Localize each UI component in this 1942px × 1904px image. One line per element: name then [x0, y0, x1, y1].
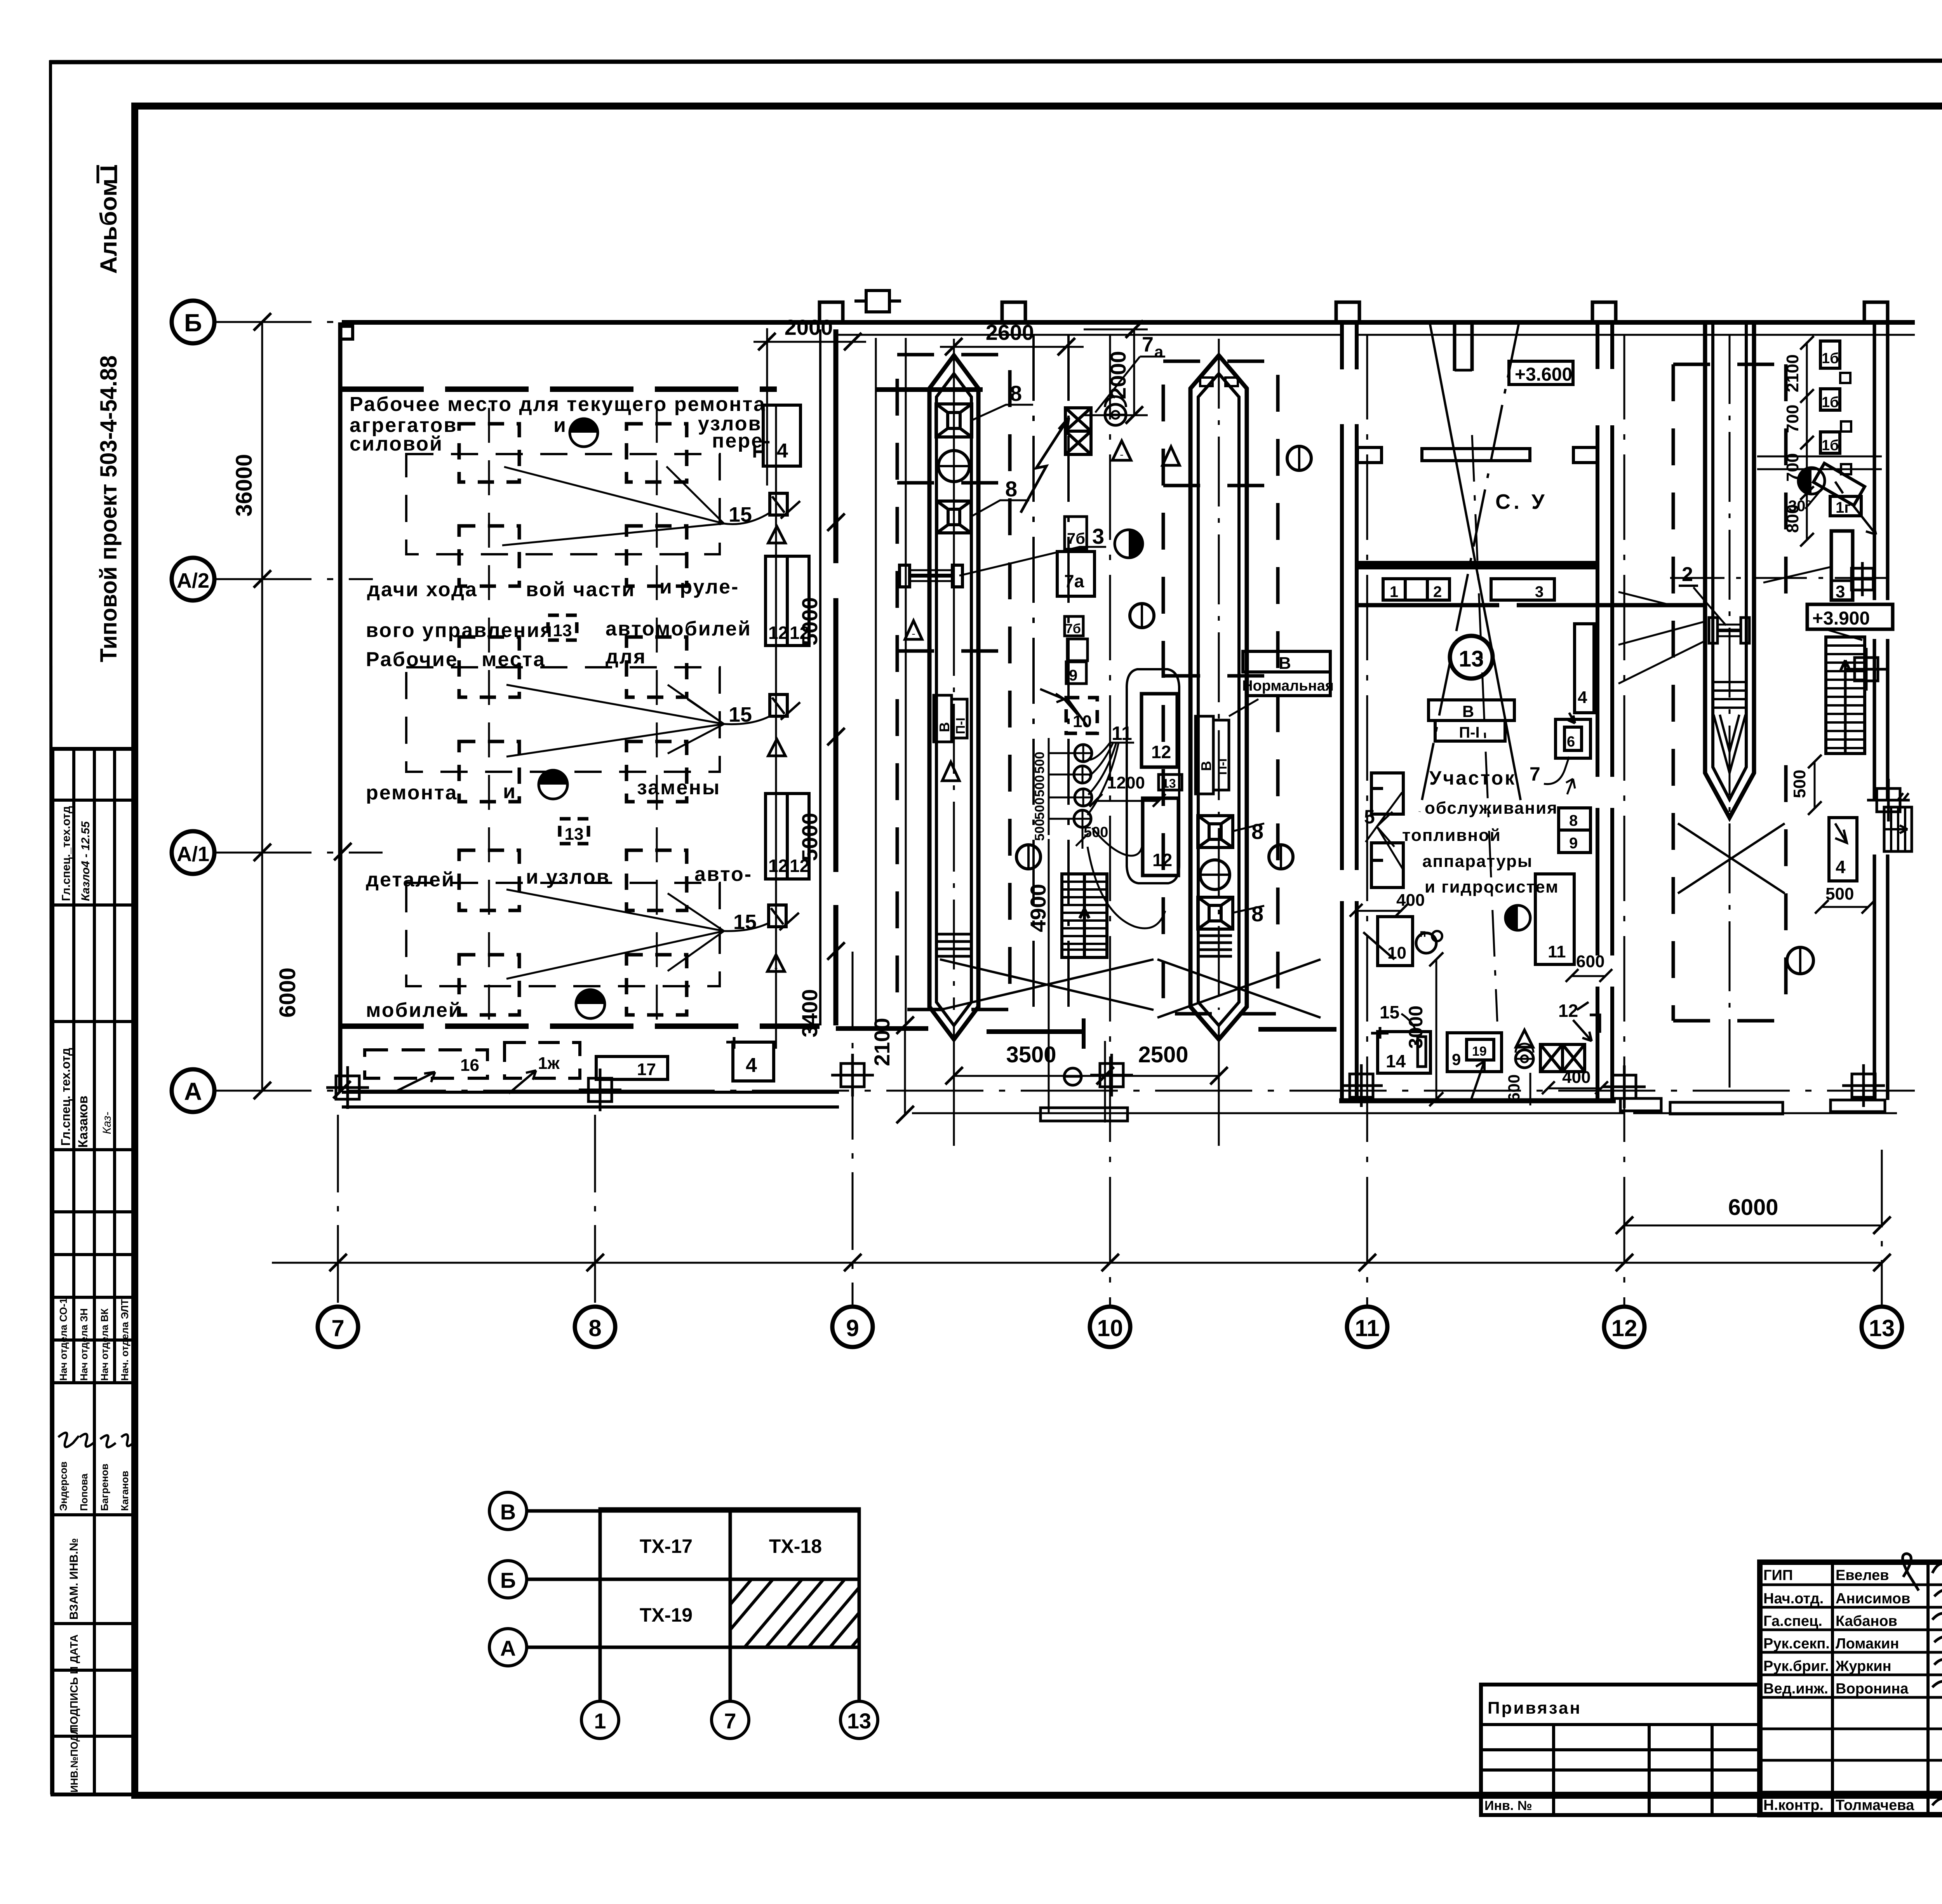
- pit 1 callout 8 upper: [972, 405, 1033, 420]
- half dark circle room13: [1505, 905, 1530, 930]
- bottom dim ticks: [329, 1217, 1891, 1271]
- fuel benches left pair: [1371, 773, 1403, 814]
- small side stair: [1884, 807, 1912, 851]
- svg-text:2000: 2000: [785, 315, 833, 339]
- svg-text:2: 2: [1433, 583, 1442, 600]
- pit 3 inner walls: [1713, 322, 1746, 799]
- svg-text:36000: 36000: [231, 454, 257, 517]
- svg-text:Кабанов: Кабанов: [1836, 1613, 1897, 1629]
- svg-text:12: 12: [768, 856, 788, 876]
- svg-text:4: 4: [1578, 688, 1587, 707]
- crossed box lower room: [1540, 1044, 1585, 1072]
- axis line А/1: [214, 852, 383, 854]
- svg-text:3400: 3400: [797, 989, 822, 1037]
- rotated table texts: [57, 806, 131, 1793]
- key plan axis circle В: [489, 1492, 527, 1530]
- bottom dimension line: [272, 1262, 1882, 1264]
- svg-text:11: 11: [1548, 942, 1566, 961]
- callout 15 group 3: [506, 889, 799, 979]
- witness line for 2000: [766, 328, 768, 486]
- rounded enclosure of benches: [1127, 669, 1179, 883]
- pit 2 circle device: [1200, 860, 1230, 889]
- svg-text:1б: 1б: [1822, 437, 1839, 454]
- dash-dot horizontal through pit3 beam: [1670, 577, 1895, 579]
- svg-text:Гл.спец. тех.отд: Гл.спец. тех.отд: [59, 1048, 73, 1146]
- pit 3 hatch steps: [1714, 682, 1745, 708]
- svg-text:Ломакин: Ломакин: [1836, 1636, 1899, 1652]
- marker В П-I room13: [1429, 700, 1514, 741]
- benches 8 9 stack: [1559, 808, 1590, 853]
- svg-text:11: 11: [1355, 1315, 1379, 1341]
- top dim 2600: [940, 346, 1084, 348]
- svg-text:автомобилей: автомобилей: [606, 618, 752, 640]
- long thin cross lines over pit3 area: [1618, 567, 1830, 645]
- pit 2 callout 8 lower: [1233, 906, 1264, 913]
- sheet top edge: [50, 60, 1942, 62]
- bench 10 lower: [1378, 917, 1413, 966]
- pit 1 circle device: [938, 451, 969, 482]
- warning triangle and valve lower room: [1516, 1030, 1533, 1047]
- car outline dashed rectangles: [406, 454, 720, 986]
- svg-text:10: 10: [1073, 712, 1092, 731]
- key plan axis circle 1: [581, 1701, 619, 1739]
- svg-text:Б: Б: [500, 1568, 516, 1592]
- left dimension line vertical: [261, 322, 263, 1091]
- svg-text:1г: 1г: [1836, 499, 1851, 516]
- svg-text:9: 9: [1069, 667, 1077, 684]
- svg-text:и узлов: и узлов: [526, 866, 610, 888]
- svg-text:12: 12: [768, 623, 788, 643]
- svg-text:деталей: деталей: [366, 868, 455, 891]
- svg-text:10: 10: [1387, 943, 1406, 962]
- svg-text:А/1: А/1: [177, 842, 209, 866]
- PLANWALLS: [326, 302, 1915, 1114]
- svg-text:места: места: [482, 648, 546, 671]
- svg-text:12: 12: [1151, 742, 1171, 762]
- svg-text:ВЗАМ. ИНВ.№: ВЗАМ. ИНВ.№: [68, 1538, 80, 1620]
- hatched cell: [730, 1579, 859, 1647]
- svg-text:П-I: П-I: [1215, 758, 1229, 775]
- key plan axis circle 7: [712, 1701, 749, 1739]
- svg-text:7б: 7б: [1065, 621, 1081, 636]
- signature rows: [1760, 1584, 1942, 1586]
- svg-text:ТХ-19: ТХ-19: [640, 1604, 693, 1626]
- leader curves from gauges to benches: [1088, 828, 1165, 928]
- signature squiggles in strip: [58, 1433, 134, 1447]
- svg-text:13: 13: [1459, 646, 1484, 672]
- jack beam in pit3: [1709, 618, 1749, 643]
- svg-text:2100: 2100: [1783, 354, 1802, 392]
- svg-text:1б: 1б: [1822, 394, 1839, 411]
- svg-text:600: 600: [1505, 1074, 1523, 1102]
- svg-text:Гл.спец._тех.отд: Гл.спец._тех.отд: [60, 806, 73, 901]
- benches 12 12 pair 2: [766, 794, 809, 879]
- svg-text:Нач отдела СО-1: Нач отдела СО-1: [57, 1298, 69, 1381]
- svg-text:6: 6: [1567, 734, 1575, 750]
- pit 3 centre axis: [1729, 334, 1731, 1088]
- axis circle А/1: [172, 831, 214, 874]
- cross bracing below pit1: [940, 959, 1154, 1010]
- svg-text:12: 12: [1558, 1001, 1578, 1021]
- sheet left edge: [50, 60, 52, 1794]
- svg-text:600: 600: [1576, 952, 1604, 971]
- svg-text:11: 11: [1112, 722, 1132, 744]
- svg-text:4: 4: [746, 1054, 757, 1077]
- svg-text:2600: 2600: [986, 320, 1034, 345]
- partition wall between hall and mid zone: [819, 329, 821, 1025]
- su bottom wall: [1357, 561, 1597, 569]
- storage 16 dashed box: [365, 1050, 487, 1078]
- svg-text:500: 500: [1032, 819, 1047, 841]
- svg-text:В: В: [1462, 702, 1474, 721]
- axis line Б: [214, 321, 1915, 323]
- top landing double line right section: [1757, 456, 1882, 469]
- svg-text:19: 19: [1472, 1044, 1487, 1059]
- svg-text:Рабочие: Рабочие: [366, 648, 458, 671]
- bench 9 with inner: [1447, 1033, 1502, 1072]
- elevation label +3.900: [1807, 604, 1893, 629]
- pit 2 warning triangle: [1162, 447, 1180, 465]
- su wall stubs inward: [1357, 447, 1382, 463]
- right rooms east wall: [1596, 322, 1599, 1101]
- equip column 7а big: [1057, 552, 1095, 596]
- dashed box 10: [1066, 698, 1097, 733]
- svg-text:2500: 2500: [1138, 1042, 1188, 1067]
- svg-text:1: 1: [594, 1709, 606, 1733]
- svg-text:Инв. №: Инв. №: [1484, 1798, 1532, 1813]
- svg-text:15: 15: [729, 703, 752, 726]
- bench 4 room13: [1575, 624, 1594, 713]
- svg-text:14: 14: [1386, 1051, 1406, 1071]
- pit 1 hoist device top: [936, 404, 972, 437]
- pit 2 inner walls: [1198, 374, 1239, 1025]
- su top wall stub: [1455, 322, 1472, 371]
- key plan axis circle А: [489, 1629, 527, 1666]
- svg-text:+3.600: +3.600: [1515, 364, 1572, 385]
- right section east wall: [1874, 322, 1888, 1100]
- svg-text:Типовой проект 503-4-54.88: Типовой проект 503-4-54.88: [96, 355, 122, 662]
- svg-text:2: 2: [1682, 563, 1693, 586]
- svg-text:3: 3: [1535, 583, 1544, 600]
- svg-text:замены: замены: [637, 776, 720, 799]
- RIGHTROOMS: [1350, 320, 1612, 1106]
- svg-text:8: 8: [588, 1315, 601, 1341]
- svg-text:Воронина: Воронина: [1836, 1681, 1909, 1697]
- svg-text:В: В: [936, 722, 952, 732]
- svg-text:13: 13: [565, 825, 584, 844]
- svg-text:А: А: [184, 1077, 202, 1105]
- svg-text:8: 8: [1010, 381, 1022, 406]
- TITLEBLOCK: [1481, 1533, 1942, 1859]
- svg-text:1ж: 1ж: [538, 1054, 560, 1073]
- svg-text:7: 7: [1142, 333, 1154, 356]
- storage 1ж dashed box: [505, 1043, 580, 1078]
- svg-text:Нач отдела ВК: Нач отдела ВК: [99, 1309, 110, 1381]
- pit 3 nested V ramp end: [1714, 715, 1745, 773]
- svg-text:4900: 4900: [1026, 884, 1050, 932]
- PITS: [876, 322, 1786, 1111]
- svg-text:6000: 6000: [1728, 1195, 1778, 1220]
- benches 12 12 pair 1: [766, 556, 809, 646]
- svg-text:дачи хода: дачи хода: [367, 578, 478, 601]
- monitoring circle mid upper: [1130, 604, 1154, 628]
- svg-text:П-I: П-I: [1459, 724, 1479, 741]
- AXES: [172, 301, 1915, 1347]
- pit 1 dashed work zone: [897, 355, 1010, 1009]
- equip column 7б: [1065, 517, 1087, 549]
- monitoring circle right sect: [1787, 947, 1813, 974]
- equip column 7б small2: [1065, 616, 1083, 636]
- svg-text:Эндерсов: Эндерсов: [57, 1462, 69, 1511]
- svg-text:А/2: А/2: [177, 569, 209, 592]
- axis circle Б: [172, 301, 214, 343]
- svg-text:авто-: авто-: [694, 863, 752, 886]
- marker 3 box: [1831, 531, 1853, 600]
- equip column 9 box: [1066, 662, 1086, 684]
- svg-text:Багренов: Багренов: [99, 1464, 110, 1511]
- svg-text:аппаратуры: аппаратуры: [1422, 852, 1533, 871]
- svg-text:и руле-: и руле-: [660, 576, 739, 598]
- svg-text:1: 1: [1390, 583, 1398, 600]
- pit 1 marker label В П-I: [934, 695, 967, 742]
- tilted unit 30deg: [1813, 463, 1865, 505]
- pit 2 top device boxes: [1200, 378, 1213, 386]
- svg-text:7: 7: [1530, 763, 1540, 785]
- svg-text:С. У: С. У: [1495, 490, 1548, 513]
- svg-text:Б: Б: [184, 309, 202, 337]
- svg-text:Анисимов: Анисимов: [1836, 1591, 1910, 1607]
- bench 4 box bottom: [733, 1042, 774, 1081]
- filter boxes 1б: [1820, 341, 1840, 368]
- svg-text:7: 7: [724, 1709, 736, 1733]
- pit 2 callout 8 upper: [1233, 823, 1264, 831]
- locker 3 row: [1491, 579, 1554, 600]
- svg-text:Га.спец.: Га.спец.: [1763, 1613, 1822, 1629]
- workplace dashed squares: [459, 424, 687, 1015]
- axis circle 8: [575, 1307, 615, 1347]
- right section bottom wall piece: [1831, 1100, 1885, 1112]
- bench 4 right sect: [1829, 818, 1857, 881]
- svg-text:+3.900: +3.900: [1812, 608, 1870, 629]
- axis verticals below building: [338, 334, 1882, 1305]
- svg-text:Нач отдела ЗН: Нач отдела ЗН: [78, 1308, 90, 1381]
- bottom partition of repair hall (dashed thick): [340, 1023, 820, 1029]
- wall between mid zone and right rooms: [1340, 322, 1344, 1101]
- svg-text:500: 500: [1790, 770, 1809, 798]
- svg-text:6000: 6000: [275, 968, 300, 1018]
- column tabs on top wall: [820, 302, 1888, 322]
- pit 1 bottom hatch steps: [937, 934, 971, 956]
- elevation label +3.600: [1509, 361, 1573, 385]
- pit 2 bottom hatch steps: [1198, 936, 1232, 956]
- key plan axis circle Б: [489, 1561, 527, 1598]
- svg-text:7: 7: [331, 1315, 344, 1341]
- gauge circles stack: [1074, 745, 1092, 827]
- top small tank symbol above frame: [854, 291, 901, 312]
- svg-text:5000: 5000: [797, 597, 822, 646]
- warning triangle right of fuel boxes: [1112, 441, 1131, 460]
- KEYPLAN: [489, 1492, 878, 1739]
- lightning arrow to fuel point: [1021, 418, 1069, 513]
- svg-text:3: 3: [1092, 524, 1104, 548]
- svg-text:и: и: [553, 414, 566, 437]
- bench 17 box: [596, 1056, 668, 1079]
- svg-text:Вед.инж.: Вед.инж.: [1763, 1681, 1828, 1697]
- double circle symbol: [1416, 933, 1436, 953]
- svg-text:мобилей: мобилей: [366, 999, 462, 1022]
- svg-text:Нач. отдела ЭЛТ: Нач. отдела ЭЛТ: [119, 1299, 131, 1381]
- ref box 13 small: [1159, 774, 1182, 790]
- mid stairs: [1062, 874, 1107, 957]
- plinth edge line below bottom wall: [912, 1112, 1897, 1114]
- svg-text:и: и: [503, 780, 515, 803]
- equipment rail line: [775, 406, 777, 1049]
- pit 2 marker label В П-I: [1195, 716, 1229, 794]
- gauge dim lines 500: [1049, 752, 1083, 754]
- bench 11 tall: [1535, 874, 1574, 964]
- svg-text:500: 500: [1032, 752, 1047, 774]
- svg-text:Рук.бриг.: Рук.бриг.: [1763, 1658, 1829, 1674]
- svg-text:9: 9: [846, 1315, 859, 1341]
- lockers 1 2 row: [1383, 579, 1450, 600]
- crossed fuel boxes: [1065, 408, 1091, 454]
- axis circle 9: [832, 1307, 873, 1347]
- lower room bottom wall: [1339, 1098, 1616, 1103]
- svg-text:а: а: [1154, 343, 1164, 361]
- svg-text:Казаков: Казаков: [76, 1096, 90, 1148]
- callout 15 group 2: [506, 685, 800, 757]
- half dark circle symbol 2: [539, 770, 567, 799]
- svg-text:4: 4: [777, 440, 788, 462]
- axis circle А/2: [172, 558, 214, 600]
- svg-text:7а: 7а: [1064, 571, 1084, 591]
- svg-text:3000: 3000: [1405, 1006, 1427, 1049]
- svg-text:и гидросистем: и гидросистем: [1425, 877, 1559, 896]
- svg-text:Журкин: Журкин: [1835, 1658, 1892, 1674]
- top outer wall along axis Б: [342, 320, 1915, 325]
- svg-text:П-I: П-I: [954, 717, 968, 734]
- svg-text:силовой: силовой: [350, 433, 443, 455]
- bench 12 box upper: [1142, 694, 1177, 767]
- pit 2 hoist device 2: [1198, 897, 1233, 929]
- signatures squiggles: [1903, 1554, 1942, 1805]
- top dim 2000: [753, 341, 866, 343]
- pit 2 hoist device 1: [1198, 816, 1233, 848]
- lightning arrow to 10: [1040, 689, 1078, 715]
- svg-text:ГИП: ГИП: [1763, 1567, 1793, 1584]
- signature table texts: [1763, 1567, 1914, 1813]
- pit 1 callout 8 lower: [971, 500, 1029, 517]
- svg-text:ТХ-17: ТХ-17: [640, 1535, 693, 1557]
- apron wall rect below mid zone: [1041, 1108, 1128, 1121]
- svg-text:ПОДПИСЬ И ДАТА: ПОДПИСЬ И ДАТА: [68, 1634, 80, 1732]
- svg-text:Рук.секп.: Рук.секп.: [1763, 1636, 1830, 1652]
- cross bracing below pit3: [1678, 823, 1785, 893]
- LEFTSTRIP: [52, 165, 135, 1794]
- mid zone bottom boundary: [836, 1029, 1336, 1032]
- dim ticks on partition: [827, 513, 845, 960]
- half dark circle symbol 3: [576, 990, 605, 1018]
- svg-text:1б: 1б: [1822, 350, 1839, 367]
- svg-text:5000: 5000: [797, 813, 822, 861]
- svg-text:500: 500: [1032, 775, 1047, 797]
- svg-text:2100: 2100: [870, 1018, 894, 1066]
- axis circle 12: [1604, 1307, 1644, 1347]
- monitoring circle right of pit2 top: [1287, 446, 1311, 470]
- svg-text:Нач.отд.: Нач.отд.: [1763, 1591, 1824, 1607]
- label 1г box: [1830, 496, 1861, 516]
- axis circle 10: [1090, 1307, 1130, 1347]
- svg-text:Евелев: Евелев: [1836, 1567, 1889, 1584]
- bench 12 box lower: [1143, 798, 1178, 875]
- svg-text:13: 13: [553, 621, 572, 640]
- equip column blank box: [1067, 639, 1088, 661]
- svg-text:Толмачева: Толмачева: [1836, 1797, 1914, 1813]
- svg-text:700: 700: [1783, 405, 1802, 433]
- certification table grid: [52, 749, 135, 1794]
- column footing marks with cross arms: [326, 648, 1910, 1111]
- signature columns: [1831, 1562, 1834, 1815]
- LEFTHALL: [350, 393, 845, 1093]
- svg-text:ремонта: ремонта: [366, 781, 458, 804]
- svg-text:Попова: Попова: [78, 1473, 90, 1511]
- svg-text:13: 13: [1162, 776, 1176, 790]
- svg-text:Участок: Участок: [1429, 767, 1516, 789]
- top partition of repair hall (dashed thick): [340, 386, 777, 392]
- valve circle symbol: [1105, 404, 1126, 425]
- svg-text:9: 9: [1452, 1050, 1461, 1069]
- pit 3 outer walls: [1705, 322, 1754, 818]
- 13 ref box 2: [560, 819, 588, 844]
- pit 1 outer walls with pointed ends: [929, 355, 978, 1039]
- pit 3 dashed work zone: [1673, 364, 1786, 1021]
- overbar and underbar of roman I: [97, 165, 99, 183]
- pit 2 centre axis: [1218, 339, 1220, 1010]
- axis line А: [214, 1090, 1915, 1092]
- svg-text:16: 16: [460, 1056, 479, 1075]
- monitoring circle right low: [1269, 845, 1293, 869]
- small valve circle bottom: [1064, 1068, 1081, 1085]
- workplace dashed squares column centre axes: [489, 408, 657, 1033]
- svg-text:400: 400: [1396, 891, 1425, 910]
- axis circle 13: [1862, 1307, 1902, 1347]
- su toilet partition: [1422, 449, 1530, 461]
- axis line А/2: [214, 578, 373, 580]
- svg-text:15: 15: [729, 503, 752, 526]
- leader fan from 5: [1366, 792, 1403, 869]
- svg-text:12: 12: [1611, 1315, 1637, 1341]
- pit 2 dashed work zone: [1163, 361, 1278, 1014]
- pit 1 warning triangle low: [942, 762, 959, 781]
- svg-text:13: 13: [847, 1709, 871, 1733]
- svg-text:8: 8: [1251, 902, 1263, 926]
- svg-text:Каз-: Каз-: [101, 1112, 113, 1134]
- svg-text:17: 17: [637, 1060, 656, 1079]
- monitoring circle left low: [1016, 845, 1041, 869]
- svg-text:7б: 7б: [1067, 530, 1085, 547]
- half dark circle symbol 1: [570, 419, 598, 447]
- vertical dim 2000 right: [1133, 329, 1135, 415]
- lane dashed lines between pits: [1032, 335, 1035, 1010]
- svg-text:12: 12: [1152, 850, 1172, 870]
- 13 ref box 1: [548, 615, 577, 640]
- callout 15 group 1: [502, 466, 800, 545]
- svg-text:для: для: [606, 646, 646, 668]
- axis circle 7: [318, 1307, 358, 1347]
- stamp outer box: [1760, 1562, 1942, 1815]
- svg-text:А: А: [500, 1636, 516, 1660]
- pit 1 centre axis: [953, 339, 955, 606]
